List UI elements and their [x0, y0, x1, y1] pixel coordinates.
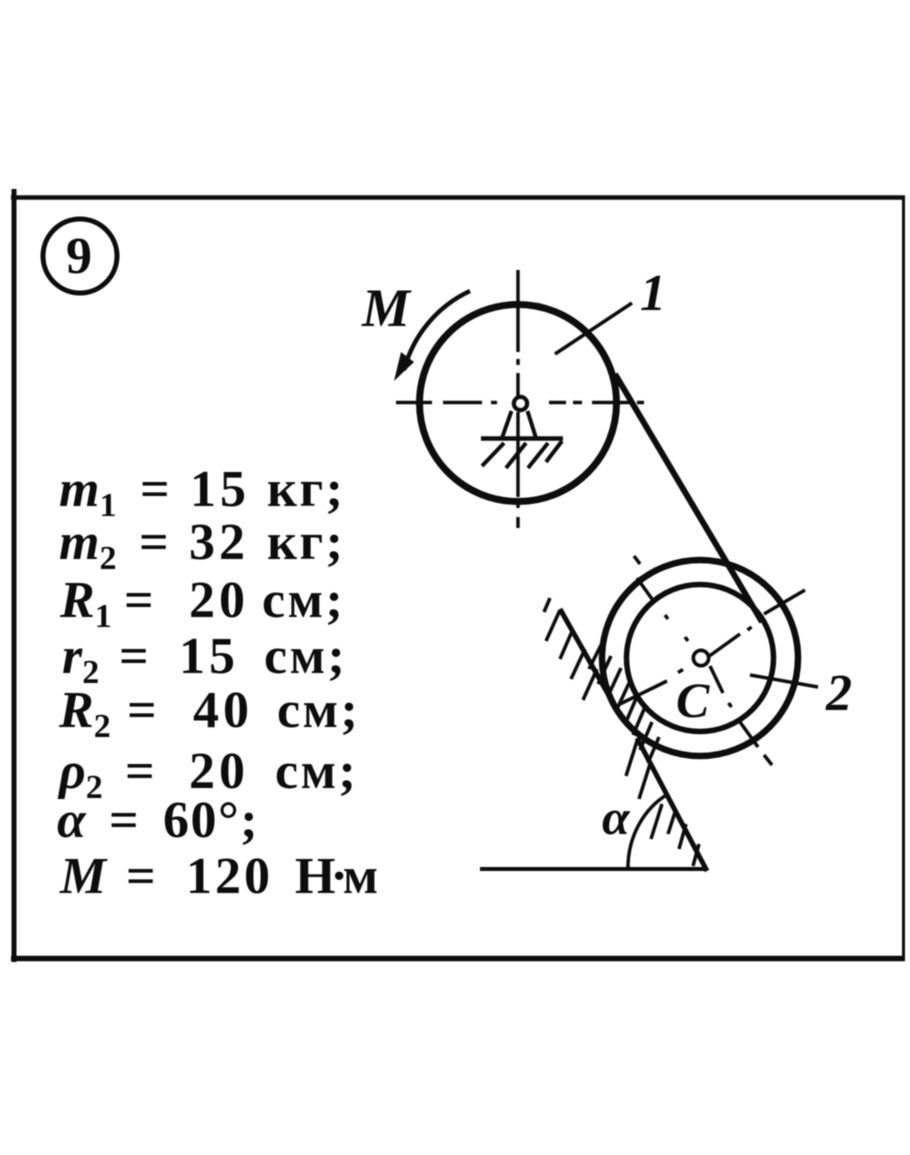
inclined surface upper segment	[560, 609, 608, 694]
inclined surface lower segment	[637, 738, 707, 871]
svg-text:M: M	[361, 278, 412, 338]
svg-text:C: C	[676, 672, 710, 728]
svg-text:9: 9	[66, 228, 92, 285]
pin hinge of pulley 1	[514, 397, 527, 410]
incline hatching lower wedge	[626, 741, 699, 866]
wheel 2 center pin	[694, 651, 709, 666]
svg-text:α: α	[602, 789, 631, 845]
moment arc arrow	[404, 291, 470, 370]
moment arrowhead	[394, 352, 414, 381]
given data text block	[57, 461, 377, 905]
wheel 2 inner circle	[627, 585, 774, 732]
support trapezoid	[502, 411, 536, 438]
support ground line	[481, 436, 563, 441]
support hatching	[482, 441, 562, 468]
rope from pulley 1 to wheel 2	[615, 374, 762, 622]
pulley 1 circle	[420, 305, 617, 502]
pulley 1 horizontal centerline	[396, 401, 644, 405]
pulley 1 vertical centerline	[516, 270, 520, 528]
ground horizontal line	[480, 867, 707, 871]
label 2 leader line	[750, 675, 818, 687]
frame border	[11, 189, 905, 962]
incline hatching upper zone	[544, 598, 597, 700]
wheel 2 centerline axis A (up-right)	[620, 590, 805, 704]
angle alpha arc	[628, 794, 668, 869]
problem number circle 9	[43, 219, 117, 293]
incline hatching along wheel rim	[589, 645, 659, 763]
label 1 leader line	[555, 303, 632, 354]
svg-text:1: 1	[640, 265, 666, 322]
wheel 2 centerline axis B (down-right)	[634, 556, 772, 765]
svg-text:2: 2	[825, 665, 852, 722]
wheel 2 outer circle	[602, 560, 798, 756]
